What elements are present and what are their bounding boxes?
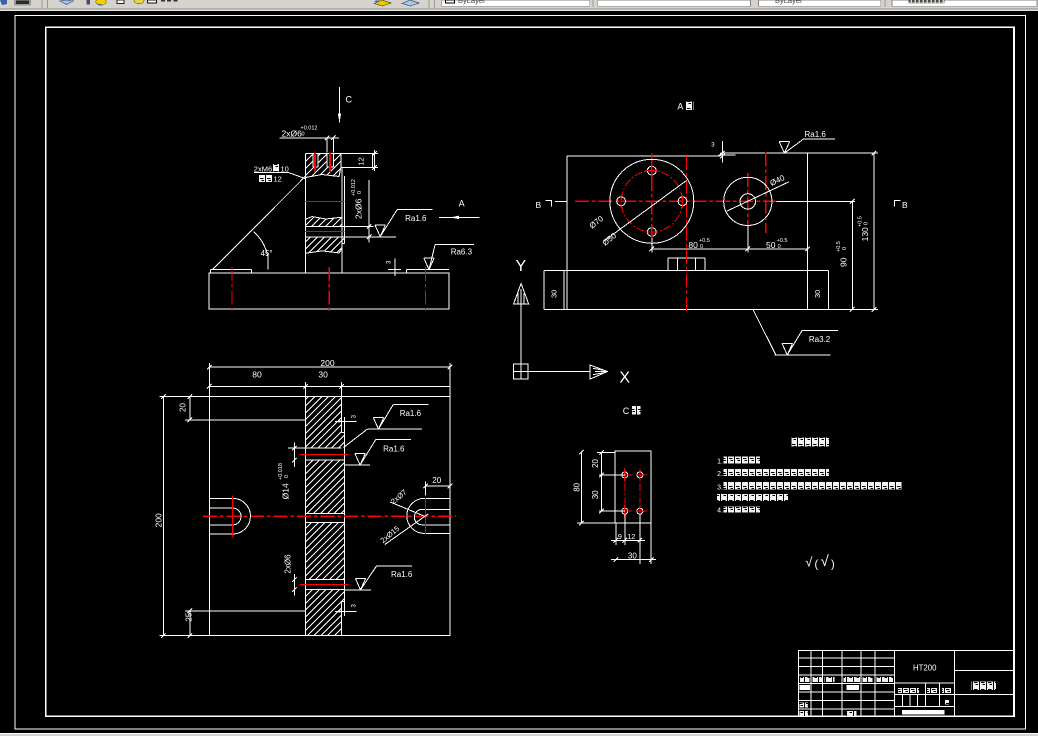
front view: 12 dim right of cap <box>372 152 378 154</box>
svg-text:Ra3.2: Ra3.2 <box>809 335 831 344</box>
svg-text:30: 30 <box>550 290 559 298</box>
title block: small cells row <box>894 705 954 707</box>
toolbar icon: yellow blob2 <box>134 0 144 4</box>
toolbar icon: 3d box lightblue <box>60 0 73 5</box>
UCS icon: Y axis shaft <box>520 304 522 364</box>
side view: small hole right <box>678 197 687 206</box>
dropdown divider2 <box>884 0 886 7</box>
C view: hole BR <box>637 508 643 514</box>
side view: leader O70 O50 <box>604 181 687 242</box>
svg-text:0: 0 <box>302 132 305 138</box>
svg-text:2xØ6: 2xØ6 <box>284 554 293 574</box>
front view: M6 hole 1 outline <box>312 153 314 167</box>
toolbar icon: white square2 <box>148 0 157 3</box>
svg-text:B: B <box>902 200 908 210</box>
svg-text:25: 25 <box>185 612 194 621</box>
plot style chinese text <box>908 0 944 4</box>
svg-text:√: √ <box>805 555 813 570</box>
plan view: band right edge with steps <box>341 397 343 433</box>
side view: red horizontal B-B centerline <box>555 200 567 202</box>
side view: 3 dim top step <box>721 141 723 163</box>
front view: red centerline hole B <box>305 231 344 233</box>
svg-text:20: 20 <box>432 476 441 485</box>
toolbar icon: yellow diamond with arrow <box>374 0 391 6</box>
dropdown: lineweight control ByLayer <box>759 0 881 6</box>
plan view: column band hatch <box>306 354 345 678</box>
plan view: right slot outer lines <box>424 497 450 499</box>
plan view: left slot inner arc <box>233 508 241 525</box>
toolbar icon: blue arrow partial <box>0 0 7 5</box>
front view: break line band2 top <box>305 217 342 220</box>
front view: base red centerline left <box>231 267 233 312</box>
title block: part name jiajuti <box>971 681 995 690</box>
C view: outline rect <box>615 451 651 523</box>
dropdown: color control ByLayer <box>442 0 590 6</box>
svg-text:2.: 2. <box>717 471 723 478</box>
side view: circle O40 inner <box>740 194 755 209</box>
plan view: right slot inner arc <box>414 509 422 524</box>
side view: B label right <box>895 201 901 207</box>
svg-text:Ra1.6: Ra1.6 <box>405 214 427 223</box>
plan view: dim 3 top step <box>343 417 345 432</box>
side view: base outline <box>544 270 829 272</box>
svg-text:30: 30 <box>813 290 822 298</box>
front view: column left edge <box>304 153 306 273</box>
tech req line 4 <box>717 494 788 501</box>
front view: boss outer edge <box>344 176 346 244</box>
title block: row labels shenhe/gongyi <box>800 703 809 708</box>
svg-text:0: 0 <box>284 475 290 478</box>
svg-text:130: 130 <box>860 227 870 241</box>
title block: redacted name boxes <box>799 685 810 690</box>
front view: 2xO6 top dimension line <box>279 137 338 139</box>
front view: M6 hole 2 red centerline <box>329 153 331 173</box>
side view: Ra3.2 finish symbol bottom <box>753 309 776 355</box>
svg-text:Ra1.6: Ra1.6 <box>383 444 405 453</box>
svg-text:30: 30 <box>318 369 328 379</box>
status bar sliver at bottom <box>0 734 1038 736</box>
svg-text:90: 90 <box>839 257 849 267</box>
svg-text:10: 10 <box>281 164 289 173</box>
svg-text:20: 20 <box>179 403 188 412</box>
title block: header row labels <box>800 677 810 682</box>
C view: bottom dims 9 and 12 <box>615 523 617 545</box>
svg-text:X: X <box>619 369 630 386</box>
plan view: leader 2xO7 <box>390 502 424 516</box>
svg-text:0: 0 <box>700 244 703 250</box>
svg-text:200: 200 <box>154 513 164 527</box>
plan view: plate edge line top <box>185 419 305 421</box>
svg-text:9: 9 <box>618 532 622 541</box>
title block: right section rows <box>955 670 1015 672</box>
front view: C view arrow <box>339 87 341 122</box>
side view: small hole left <box>617 197 626 206</box>
plan view: hole 3 red centerline <box>300 583 349 585</box>
plan view: right slot inner lines <box>422 508 450 510</box>
title block: middle row cells <box>894 682 954 684</box>
svg-text:B: B <box>536 200 542 210</box>
side view: Ra1.6 top finish symbol <box>779 141 789 143</box>
UCS icon: Y axis arrowhead <box>514 284 529 305</box>
C view: hole BL <box>622 508 628 514</box>
svg-text:A: A <box>459 199 465 209</box>
front view: M6 hole 2 blackout <box>327 153 333 167</box>
dropdown divider <box>592 0 594 7</box>
plan view: main horizontal red centerline <box>203 515 456 517</box>
side view: small hole top <box>647 166 656 175</box>
svg-text:30: 30 <box>591 490 600 499</box>
svg-text:2xØ6: 2xØ6 <box>354 198 364 219</box>
plan view: dim O14 vertical <box>293 442 295 467</box>
svg-text:0: 0 <box>778 244 781 250</box>
side view: red centerline left circle vertical <box>651 154 653 238</box>
svg-text:A: A <box>677 102 683 112</box>
front view: red centerline hole A <box>305 201 344 203</box>
C view: dim 20 <box>597 451 615 453</box>
plan view: right slot red centerline <box>425 498 427 534</box>
plan view: hole gap 1 blackout <box>305 448 345 460</box>
plan view: hole 2 edges middle <box>306 512 345 514</box>
plan view: band left edge <box>305 397 307 636</box>
plan view: hole gap 2 blackout <box>305 513 345 522</box>
plan view: hole 1 red centerline <box>300 453 349 455</box>
plan view: dim 25 left bottom <box>189 611 191 636</box>
C view: bottom dim 30 <box>650 523 652 564</box>
svg-text:Ra1.6: Ra1.6 <box>805 130 827 139</box>
front view: base outline <box>209 273 449 309</box>
front view: Ra6.3 finish symbol on pad <box>424 257 434 259</box>
svg-text:C: C <box>623 406 630 416</box>
C view: hole TR <box>637 472 643 478</box>
svg-text:12: 12 <box>357 157 366 165</box>
front view: 45 dim arc <box>254 232 268 256</box>
front view: break line band3 bottom <box>305 249 342 254</box>
svg-text:+0.5: +0.5 <box>777 238 788 244</box>
title block: left grid horizontals <box>799 657 895 659</box>
toolbar icon: yellow sun/lock <box>96 0 106 5</box>
front view: mid hatch band <box>305 175 342 268</box>
UCS icon: X axis arrowhead <box>590 365 607 379</box>
front view: leader 2xM6 depth10 <box>254 171 288 173</box>
svg-text:0: 0 <box>864 222 870 225</box>
front view: 3 dim pad height <box>394 259 396 277</box>
front view: M6 hole 1 blackout <box>313 153 319 167</box>
side view: red centerline column <box>686 156 688 312</box>
plan view: Ra1.6 symbol 3 line <box>345 589 372 591</box>
svg-text:ByLayer: ByLayer <box>458 0 486 5</box>
side view: circle O40 <box>724 177 772 225</box>
plan view: dim 200 top <box>208 363 210 397</box>
dropdown: plot style control <box>892 0 1037 6</box>
plan view: Ra1.6 symbol 2 line <box>345 464 370 466</box>
svg-text:12: 12 <box>627 532 635 541</box>
title block: left grid verticals <box>810 650 812 716</box>
svg-text:(: ( <box>815 559 819 571</box>
plan view: left slot inner lines <box>209 507 232 509</box>
svg-text:0: 0 <box>842 247 848 250</box>
svg-text:80: 80 <box>252 369 262 379</box>
toolbar icon: printer <box>14 0 31 6</box>
front view: Ra1.6 finish symbol <box>375 224 385 226</box>
plan view: outline rect <box>209 397 450 636</box>
side view: bottom dim 80 and 50 <box>651 238 653 253</box>
front view: A view arrow <box>439 216 480 218</box>
plan view: dim 20 left top <box>184 419 186 421</box>
front view: M6 hole 1 red centerline <box>314 153 316 173</box>
C view: dim 80 <box>577 522 615 524</box>
side view: red line right long <box>765 152 767 233</box>
front view: base red centerline mid <box>328 267 330 312</box>
side view: leader O40 <box>727 182 789 211</box>
UCS icon: origin box <box>514 364 529 379</box>
svg-text:): ) <box>831 559 835 571</box>
svg-text:3.: 3. <box>717 484 723 491</box>
front view: cap break line <box>305 168 340 178</box>
plan view: hole gap 3 blackout <box>305 580 345 590</box>
front view: hole2 bottom edge line <box>305 236 396 238</box>
front view: hole2 top edge line <box>305 225 373 227</box>
svg-text:HT200: HT200 <box>913 664 937 673</box>
technical requirements title <box>791 438 829 447</box>
plan view: dim 200 left <box>159 396 209 398</box>
svg-text:80: 80 <box>573 482 582 491</box>
svg-text:Y: Y <box>516 258 527 275</box>
svg-text:1.: 1. <box>717 459 723 466</box>
svg-text:ByLayer: ByLayer <box>775 0 803 5</box>
front view: lower hatch band <box>305 196 344 298</box>
side view: center tab <box>668 257 705 259</box>
front view: base red centerline right <box>425 267 427 312</box>
C view: red dashed box connecting holes <box>624 484 626 504</box>
title block: main verticals <box>893 650 895 716</box>
front view: column cap hatch (2xM6 section) <box>305 112 340 217</box>
title block: outer rect <box>799 650 1015 716</box>
plan view: left slot outer arc <box>233 498 251 534</box>
svg-text:200: 200 <box>320 358 334 368</box>
title block: redacted bottom box <box>902 710 945 714</box>
svg-text:Ø14: Ø14 <box>281 483 291 499</box>
svg-text:4.: 4. <box>717 507 723 514</box>
svg-text:2xØ6: 2xØ6 <box>282 128 303 138</box>
plan view: dim 2xO6 vertical <box>293 574 295 596</box>
plan view: left slot red centerline <box>232 496 234 537</box>
plan view: Ra1.6 symbol 3 <box>355 577 365 579</box>
toolbar strip (cut off at top) <box>0 0 1038 11</box>
side view: big circle O70 <box>610 159 694 243</box>
UCS icon: X axis shaft <box>528 371 590 373</box>
svg-text:80: 80 <box>688 240 698 250</box>
svg-text:Ra1.6: Ra1.6 <box>400 409 422 418</box>
plan view: Ra1.6 symbol 1 <box>373 417 383 419</box>
plan view: dim 20 right slot <box>425 482 427 496</box>
svg-text:12: 12 <box>274 175 282 184</box>
plan view: hole 1 edges (O14) <box>306 447 342 449</box>
front view: cap outline <box>305 152 372 154</box>
front view: M6 hole 2 outline <box>326 153 328 167</box>
front view: vertical dim 2xO6 +0.012 <box>368 180 370 243</box>
svg-text:45°: 45° <box>261 249 273 258</box>
side view: plate outline <box>567 155 721 157</box>
front view: column right edge <box>341 168 343 273</box>
svg-text:30: 30 <box>628 551 637 560</box>
front view: left pad <box>211 269 252 271</box>
dropdown: linetype control <box>598 0 751 6</box>
plan view: leader 2xO15 <box>385 514 428 545</box>
plan view: Ra1.6 symbol 1 leader <box>344 429 368 447</box>
svg-text:+0.5: +0.5 <box>699 238 710 244</box>
front view: 45 deg rib line <box>213 176 306 269</box>
svg-text:Ra6.3: Ra6.3 <box>451 248 473 257</box>
plan view: plate edge line bottom <box>185 610 305 612</box>
C view: hole TL <box>622 472 628 478</box>
front view: right pad <box>407 269 450 271</box>
svg-text:√: √ <box>821 553 830 570</box>
svg-text:50: 50 <box>766 240 776 250</box>
svg-text:2xM6: 2xM6 <box>254 164 272 173</box>
plan view: right slot outer arc <box>407 498 425 533</box>
toolbar separator <box>41 0 43 8</box>
svg-text:20: 20 <box>591 458 600 467</box>
toolbar icon: small dark blob <box>87 0 91 5</box>
svg-text:Ra1.6: Ra1.6 <box>391 570 413 579</box>
plan view: dim 3 bottom step <box>343 602 345 616</box>
toolbar icon: white square <box>117 0 124 3</box>
plan view: left slot outer lines <box>209 497 232 499</box>
toolbar icon: lightblue diamond <box>402 0 419 6</box>
svg-text:0: 0 <box>357 191 363 194</box>
plan view: dim 80 / 30 <box>305 382 307 397</box>
svg-text:C: C <box>346 95 353 105</box>
side view: red bolt circle <box>621 171 682 232</box>
plan view: Ra1.6 symbol 2 <box>355 453 365 455</box>
toolbar separator2 <box>428 0 430 8</box>
side view: right dim 90 <box>829 308 879 310</box>
side view: small hole bottom <box>647 228 656 237</box>
side view: red centerline right circle vertical <box>747 173 749 226</box>
side view: right dim 130 <box>808 152 879 154</box>
toolbar icon: dark text marks <box>161 0 165 2</box>
plan view: hole 3 edges (2xO6) <box>306 579 345 581</box>
